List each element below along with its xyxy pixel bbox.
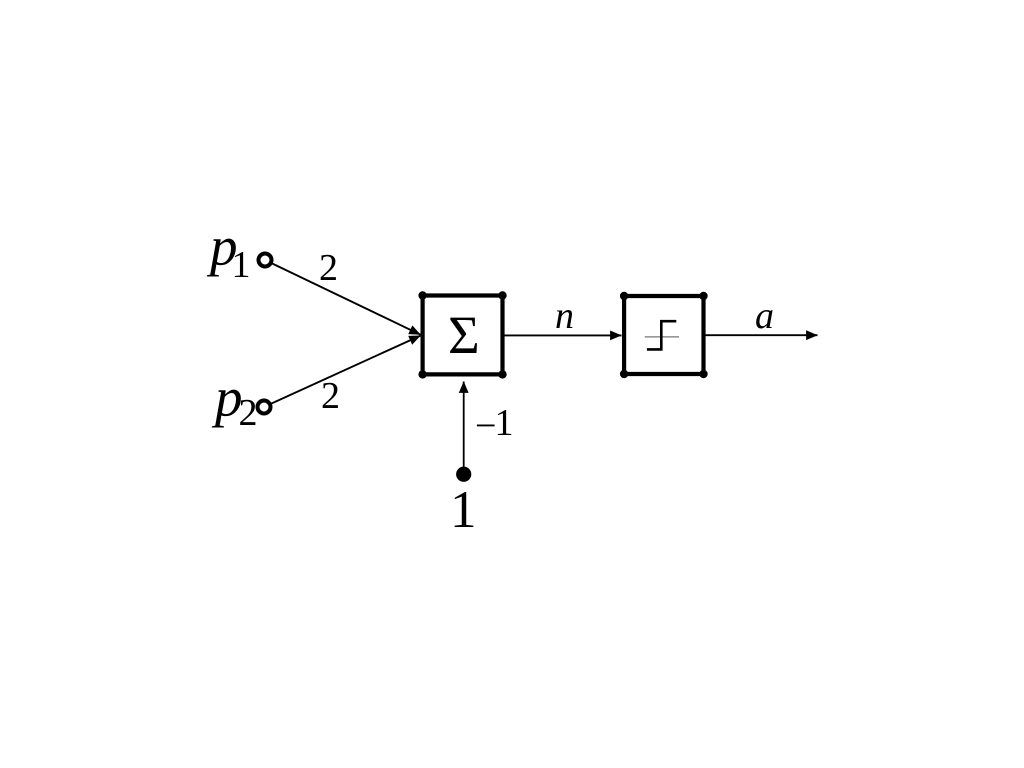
input label p1: [206, 216, 251, 286]
weight label w1,1 value 2: [319, 247, 338, 289]
svg-text:Σ: Σ: [448, 304, 480, 365]
bias weight label -1: [475, 402, 514, 447]
svg-text:1: 1: [495, 402, 514, 444]
svg-text:−: −: [475, 405, 496, 447]
net label n: [555, 295, 574, 337]
input terminal node p2: [258, 401, 271, 414]
wire n from summer to hardlim: [505, 334, 622, 336]
svg-text:a: a: [755, 295, 774, 337]
svg-text:2: 2: [319, 247, 338, 289]
svg-text:n: n: [555, 295, 574, 337]
bias wire: [463, 382, 465, 468]
wire w1,2 from input p2 to summer: [266, 336, 421, 406]
svg-text:1: 1: [232, 244, 251, 286]
svg-text:1: 1: [450, 481, 477, 539]
input label p2: [211, 367, 258, 434]
hardlim box U2: [620, 292, 708, 378]
weight label w1,2 value 2: [321, 375, 340, 417]
bias constant label 1: [450, 481, 477, 539]
svg-text:2: 2: [239, 392, 258, 434]
svg-text:2: 2: [321, 375, 340, 417]
output wire a: [705, 334, 817, 336]
input terminal node p1: [259, 254, 272, 267]
hardlim transfer function symbol: [645, 321, 679, 349]
summer box U1: [418, 291, 506, 378]
net label a: [755, 295, 774, 337]
summer symbol sigma: [448, 304, 480, 365]
wire w1,1 from input p1 to summer: [267, 261, 421, 335]
bias source node: [456, 467, 471, 482]
